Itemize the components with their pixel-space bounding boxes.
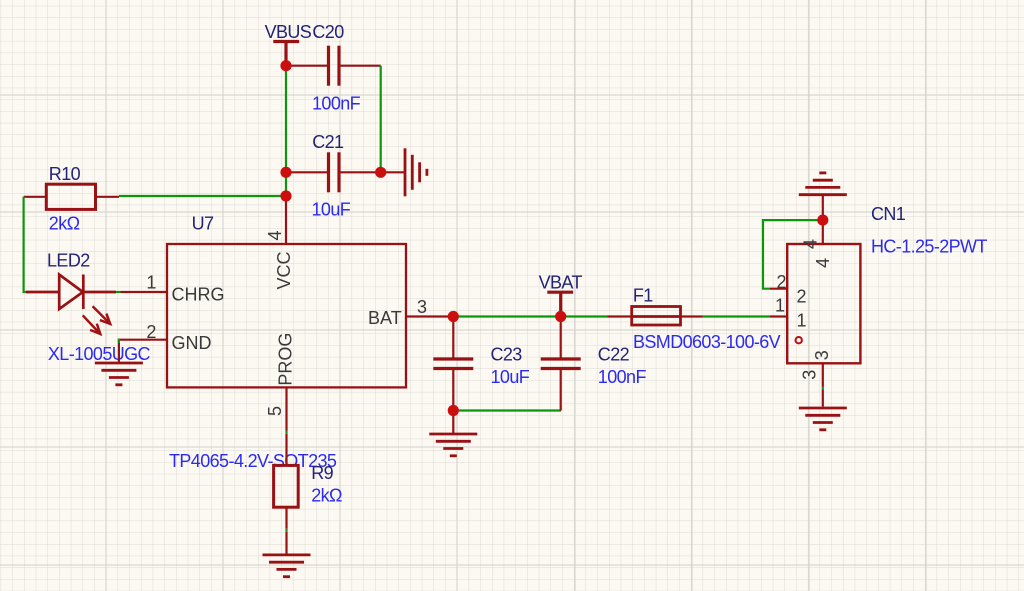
pin 3 BAT of U7 xyxy=(406,315,453,317)
ground (inverted, above CN1) xyxy=(799,173,847,195)
svg-text:CN1: CN1 xyxy=(871,204,906,224)
svg-text:3: 3 xyxy=(812,350,832,360)
wire C21 right stub xyxy=(339,171,381,173)
svg-text:4: 4 xyxy=(265,230,285,240)
svg-text:XL-1005UGC: XL-1005UGC xyxy=(48,344,151,364)
wire R9 to ground xyxy=(285,532,287,555)
ground (below R9) xyxy=(263,555,311,577)
pin 1 of CN1 xyxy=(770,315,787,317)
capacitor C23 stub top xyxy=(452,317,454,360)
pin 2 GND of U7 xyxy=(119,340,167,362)
pin 2 of CN1 xyxy=(770,288,787,290)
svg-text:LED2: LED2 xyxy=(47,250,90,270)
svg-text:F1: F1 xyxy=(633,285,653,305)
svg-text:10uF: 10uF xyxy=(491,367,530,387)
svg-text:R9: R9 xyxy=(311,463,333,483)
svg-text:4: 4 xyxy=(801,239,821,249)
fuse F1 right pin xyxy=(681,315,703,317)
svg-text:U7: U7 xyxy=(192,213,214,233)
node VBUS/C20 junction xyxy=(280,60,291,71)
capacitor C22 stub bottom xyxy=(560,369,562,411)
connector CN1 body xyxy=(787,244,860,363)
wire LED to CHRG (green tick) xyxy=(116,291,121,293)
LED LED2 xyxy=(26,275,116,310)
pin 4 of CN1 xyxy=(822,220,824,244)
wire top node to inverted ground xyxy=(822,195,824,220)
fuse F1 xyxy=(632,307,681,326)
svg-text:C23: C23 xyxy=(491,344,523,364)
resistor R9 xyxy=(274,465,299,507)
wire VBUS vertical xyxy=(285,66,287,196)
wire R10 to VCC node xyxy=(119,195,286,197)
svg-text:2kΩ: 2kΩ xyxy=(311,485,342,505)
wire R10 left pin xyxy=(24,196,47,198)
pin 5 PROG of U7 xyxy=(285,387,287,430)
svg-text:CHRG: CHRG xyxy=(172,285,225,305)
ground (rotated, right of C21) xyxy=(405,148,427,196)
power flag VBUS xyxy=(273,42,299,63)
svg-text:VCC: VCC xyxy=(274,251,294,289)
svg-text:1: 1 xyxy=(146,273,156,293)
svg-text:100nF: 100nF xyxy=(312,94,361,114)
node BAT/C23 junction xyxy=(448,311,459,322)
ground (below C23) xyxy=(429,434,477,456)
capacitor C22 xyxy=(541,359,581,369)
pin 1 CHRG of U7 xyxy=(121,291,168,293)
svg-text:5: 5 xyxy=(265,406,285,416)
svg-text:C20: C20 xyxy=(312,22,344,42)
wire C20 down to C21 ground node xyxy=(380,66,382,173)
svg-text:3: 3 xyxy=(800,370,820,380)
svg-text:BSMD0603-100-6V: BSMD0603-100-6V xyxy=(633,332,781,352)
node C23 bottom junction xyxy=(448,405,459,416)
ground (below CN1) xyxy=(799,408,847,430)
svg-text:C22: C22 xyxy=(598,344,630,364)
svg-text:1: 1 xyxy=(775,296,785,316)
LED2 arrow 1 xyxy=(93,306,111,324)
resistor R10 xyxy=(46,184,95,209)
node CN1 top junction xyxy=(817,215,828,226)
wire GND corner green tick xyxy=(118,339,120,343)
wire C23 to C22 bottom xyxy=(453,409,561,411)
svg-text:R10: R10 xyxy=(49,164,81,184)
svg-text:2: 2 xyxy=(776,272,786,292)
svg-text:HC-1.25-2PWT: HC-1.25-2PWT xyxy=(871,237,987,257)
svg-text:PROG: PROG xyxy=(276,333,296,386)
wire to rotated ground xyxy=(381,171,405,173)
svg-text:2: 2 xyxy=(146,322,156,342)
LED2 arrow 2 xyxy=(83,315,101,334)
node VBAT/C22 junction xyxy=(555,311,566,322)
capacitor C23 stub bottom xyxy=(452,369,454,411)
svg-text:BAT: BAT xyxy=(368,308,402,328)
svg-text:2kΩ: 2kΩ xyxy=(49,213,80,233)
wire C20 left stub xyxy=(286,65,329,67)
svg-text:10uF: 10uF xyxy=(312,199,351,219)
power flag VBAT xyxy=(547,292,573,313)
wire CN1 pin2 route to top node xyxy=(763,220,823,289)
IC U7 body xyxy=(167,244,406,387)
wire R9 bottom green tick xyxy=(285,529,287,532)
ground (below U7 GND pin) xyxy=(95,363,143,385)
fuse F1 left pin xyxy=(608,315,632,317)
wire F1 to CN1 pin1 xyxy=(703,315,770,317)
wire C23 node to ground xyxy=(452,411,454,434)
pin 3 of CN1 xyxy=(822,363,824,387)
polarity circle (CN1 pin1 marker) xyxy=(796,337,802,343)
svg-text:4: 4 xyxy=(813,258,833,268)
svg-text:100nF: 100nF xyxy=(598,367,647,387)
wire C20 right stub xyxy=(339,65,381,67)
node C21 left junction xyxy=(280,167,291,178)
svg-text:1: 1 xyxy=(797,311,807,331)
wire R10 right pin xyxy=(96,196,120,198)
wire CN1 pin3 to ground xyxy=(822,389,824,406)
svg-text:3: 3 xyxy=(417,297,427,317)
svg-text:2: 2 xyxy=(797,286,807,306)
capacitor C22 stub top xyxy=(560,317,562,360)
wire R10 left down to LED xyxy=(24,197,27,292)
node R10/VCC junction xyxy=(280,190,291,201)
wire CN1 pin3 green tick xyxy=(822,387,824,389)
wire R9 bottom xyxy=(285,507,287,529)
capacitor C20 xyxy=(329,46,340,86)
wire BAT node to VBAT node xyxy=(453,315,607,317)
capacitor C23 xyxy=(433,359,473,369)
svg-text:C21: C21 xyxy=(312,132,344,152)
wire PROG to R9 xyxy=(285,434,287,466)
svg-text:GND: GND xyxy=(172,333,212,353)
wire PROG green tick xyxy=(285,431,287,434)
node C21 right junction xyxy=(375,167,386,178)
svg-text:VBUS: VBUS xyxy=(265,22,312,42)
capacitor C21 xyxy=(329,152,340,192)
wire C21 left stub xyxy=(286,171,329,173)
pin 4 VCC of U7 xyxy=(285,196,287,244)
svg-text:VBAT: VBAT xyxy=(539,272,583,292)
